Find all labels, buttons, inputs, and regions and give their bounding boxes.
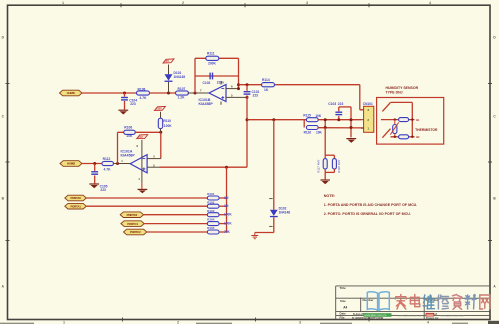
svg-text:Size: Size — [340, 299, 346, 303]
svg-text:TYPE DNJ: TYPE DNJ — [386, 91, 403, 95]
svg-text:R116: R116 — [304, 130, 312, 134]
svg-text:R108: R108 — [138, 88, 146, 92]
svg-text:3: 3 — [299, 320, 301, 324]
svg-text:1: 1 — [62, 1, 64, 5]
svg-text:PORTA0: PORTA0 — [70, 196, 81, 200]
svg-text:www.jdwx.com.cn: www.jdwx.com.cn — [364, 313, 387, 317]
svg-text:File: File — [340, 316, 345, 320]
svg-text:100K: 100K — [224, 222, 232, 226]
svg-text:10K: 10K — [316, 130, 323, 134]
svg-text:PORTC0: PORTC0 — [127, 213, 138, 217]
svg-text:223: 223 — [338, 102, 344, 106]
svg-text:+15V: +15V — [156, 107, 162, 111]
svg-text:R111: R111 — [207, 52, 215, 56]
svg-text:HUMI1: HUMI1 — [67, 91, 76, 95]
svg-text:C102: C102 — [203, 81, 211, 85]
svg-text:~~-www.jdwx.com.cn-~~~: ~~-www.jdwx.com.cn-~~~ — [436, 313, 471, 317]
svg-text:4.7K: 4.7K — [104, 168, 112, 172]
svg-text:10K: 10K — [126, 134, 133, 138]
svg-text:R118 4M7: R118 4M7 — [337, 159, 341, 173]
svg-text:PORTC2: PORTC2 — [130, 230, 141, 234]
svg-text:PORTA1: PORTA1 — [70, 204, 81, 208]
svg-text:R110: R110 — [163, 119, 171, 123]
svg-text:75K: 75K — [224, 230, 231, 234]
svg-text:2: 2 — [177, 320, 179, 324]
svg-text:2: 2 — [182, 1, 184, 5]
svg-text:2. PORTO. PORTD IS GENERAL I/O: 2. PORTO. PORTD IS GENERAL I/O PORT OF M… — [324, 212, 411, 216]
svg-text:1M: 1M — [224, 204, 229, 208]
svg-text:100K: 100K — [164, 124, 173, 128]
svg-text:1. PORTA AND PORTB IS A/D CHAN: 1. PORTA AND PORTB IS A/D CHANGE PORT OF… — [324, 203, 418, 207]
svg-text:R107: R107 — [178, 87, 186, 91]
svg-text:R117 4M7: R117 4M7 — [317, 159, 321, 173]
svg-text:C103: C103 — [328, 102, 336, 106]
svg-text:HUMIDITY SENSOR: HUMIDITY SENSOR — [386, 86, 419, 90]
svg-text:NOTE:: NOTE: — [324, 194, 335, 198]
svg-text:B1: B1 — [416, 118, 420, 122]
svg-text:10K: 10K — [315, 114, 322, 118]
svg-text:200K: 200K — [208, 62, 217, 66]
svg-text:R114: R114 — [262, 78, 270, 82]
svg-text:4.7K: 4.7K — [140, 96, 148, 100]
svg-text:KIA458P: KIA458P — [121, 154, 136, 158]
svg-text:3: 3 — [306, 1, 308, 5]
svg-text:100K: 100K — [224, 213, 232, 217]
svg-text:R103: R103 — [207, 209, 215, 213]
svg-text:PORTC1: PORTC1 — [127, 222, 138, 226]
svg-text:1: 1 — [63, 320, 65, 324]
svg-text:CN101: CN101 — [363, 102, 373, 106]
svg-text:1.2K: 1.2K — [178, 96, 186, 100]
svg-text:KIA458P: KIA458P — [199, 102, 214, 106]
svg-text:Number: Number — [363, 298, 375, 302]
svg-text:+5V: +5V — [138, 135, 143, 139]
svg-text:1N4148: 1N4148 — [279, 211, 291, 215]
svg-text:223: 223 — [130, 102, 136, 106]
svg-text:R102: R102 — [207, 200, 215, 204]
svg-text:223: 223 — [217, 81, 223, 85]
svg-text:1K: 1K — [264, 88, 269, 92]
svg-text:R106: R106 — [124, 125, 132, 129]
svg-text:223: 223 — [100, 188, 106, 192]
svg-text:4: 4 — [427, 320, 429, 324]
svg-text:223: 223 — [253, 94, 259, 98]
svg-text:R112: R112 — [103, 157, 111, 161]
svg-text:R101: R101 — [207, 192, 215, 196]
svg-text:4: 4 — [429, 1, 431, 5]
svg-text:R115: R115 — [303, 114, 311, 118]
svg-text:1N4148: 1N4148 — [174, 75, 186, 79]
svg-text:HUMI2: HUMI2 — [67, 162, 76, 166]
svg-text:+5V: +5V — [164, 59, 169, 63]
svg-text:Title: Title — [340, 286, 346, 290]
svg-text:R105: R105 — [207, 226, 215, 230]
svg-text:A4: A4 — [343, 305, 347, 309]
svg-text:R104: R104 — [207, 218, 215, 222]
svg-text:1M: 1M — [224, 196, 229, 200]
svg-text:THERMISTOR: THERMISTOR — [415, 128, 438, 132]
svg-text:B2: B2 — [416, 135, 420, 139]
